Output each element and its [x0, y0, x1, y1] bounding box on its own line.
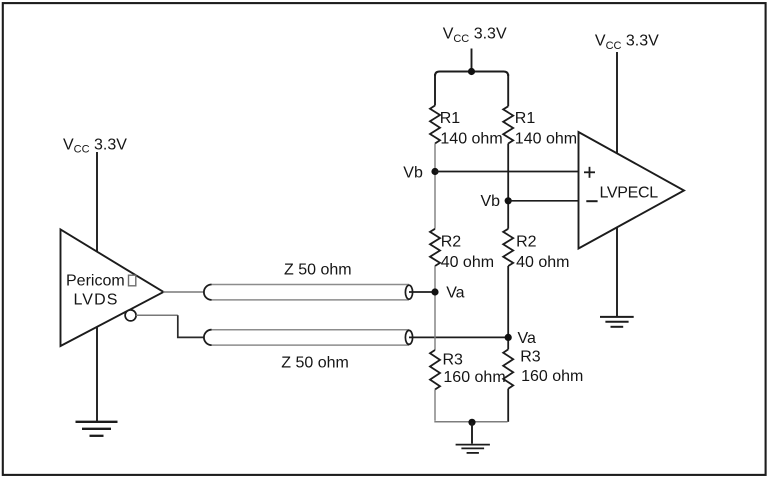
resistor R3 right: [503, 349, 513, 388]
wire bottom rail: [434, 421, 507, 423]
transmission line T1 Z 50 ohm: [204, 285, 413, 300]
resistor R2 right: [503, 229, 513, 266]
svg-text:R2: R2: [516, 233, 537, 250]
U2 + input marker: [584, 167, 595, 178]
wire bend down to T2: [178, 315, 205, 337]
junction Vb1 dot: [431, 168, 438, 175]
wire left branch lower: [434, 390, 436, 421]
ground GND1: [76, 422, 118, 436]
junction GND2 dot: [468, 419, 475, 426]
svg-text:VCC 3.3V: VCC 3.3V: [63, 137, 127, 156]
svg-text:VCC 3.3V: VCC 3.3V: [443, 26, 507, 45]
wire U1 output- from bubble: [136, 314, 178, 316]
junction VCC2 dot: [468, 68, 475, 75]
resistor R2 left: [430, 229, 440, 266]
op-amp U1 Pericom LVDS driver: [61, 230, 164, 347]
wire right branch lower: [507, 389, 509, 422]
svg-text:160 ohm: 160 ohm: [521, 368, 583, 385]
svg-text:LVDS: LVDS: [74, 292, 119, 309]
svg-text:LVPECL: LVPECL: [600, 185, 659, 202]
wire left branch R2-R3: [434, 266, 436, 350]
wire right branch R2-R3: [507, 266, 509, 349]
svg-text:VCC 3.3V: VCC 3.3V: [595, 33, 659, 52]
wire VCC2 stub: [471, 49, 473, 72]
wire VCC3 to U2 top: [616, 52, 618, 154]
wire U1 output+ to T1: [163, 291, 205, 293]
junction Va2 dot: [505, 334, 512, 341]
U2 - input marker: [586, 200, 597, 202]
wire Vb1 to U2 + input: [435, 171, 579, 173]
U1 tofu box glyph: [129, 275, 136, 286]
svg-text:R3: R3: [443, 351, 464, 368]
svg-text:140 ohm: 140 ohm: [440, 131, 502, 148]
wire right branch upper: [507, 74, 509, 106]
transmission line T2 Z 50 ohm: [204, 330, 413, 345]
wire VCC to U1 top: [96, 152, 98, 252]
junction Vb2 dot: [505, 197, 512, 204]
ground GND2: [456, 445, 490, 453]
svg-text:40 ohm: 40 ohm: [516, 254, 569, 271]
resistor R3 left: [430, 350, 440, 390]
svg-text:160 ohm: 160 ohm: [443, 369, 505, 386]
svg-text:Pericom: Pericom: [66, 272, 125, 289]
svg-text:R1: R1: [515, 110, 536, 127]
svg-text:140 ohm: 140 ohm: [515, 131, 577, 148]
svg-text:40 ohm: 40 ohm: [441, 254, 494, 271]
svg-text:R1: R1: [440, 110, 461, 127]
op-amp U2 LVPECL receiver: [579, 132, 685, 249]
svg-text:R3: R3: [520, 349, 541, 366]
svg-text:R2: R2: [441, 233, 462, 250]
wire U1 to ground: [96, 327, 98, 422]
svg-text:Z 50 ohm: Z 50 ohm: [284, 261, 352, 278]
wire left branch upper: [434, 74, 436, 106]
junction Va1 dot: [431, 288, 438, 295]
U1 inverting output bubble: [125, 310, 136, 321]
svg-text:Va: Va: [518, 330, 536, 347]
resistor R1 left: [430, 106, 440, 144]
ground GND3: [600, 317, 634, 327]
wire U2 to ground: [616, 227, 618, 317]
wire left branch R1-R2: [434, 144, 436, 229]
resistor R1 right: [503, 106, 513, 143]
svg-text:Vb: Vb: [481, 193, 501, 210]
svg-text:Va: Va: [446, 285, 464, 302]
wire top rail: [435, 72, 508, 77]
wire right branch R1-R2: [507, 144, 509, 229]
svg-text:Z 50 ohm: Z 50 ohm: [281, 355, 349, 372]
wire T2 to node Va2: [409, 336, 508, 338]
svg-text:Vb: Vb: [403, 164, 423, 181]
wire GND2 stub: [471, 422, 473, 443]
wire T1 to node Va1: [409, 291, 436, 293]
wire Vb2 to U2 - input: [508, 200, 578, 202]
